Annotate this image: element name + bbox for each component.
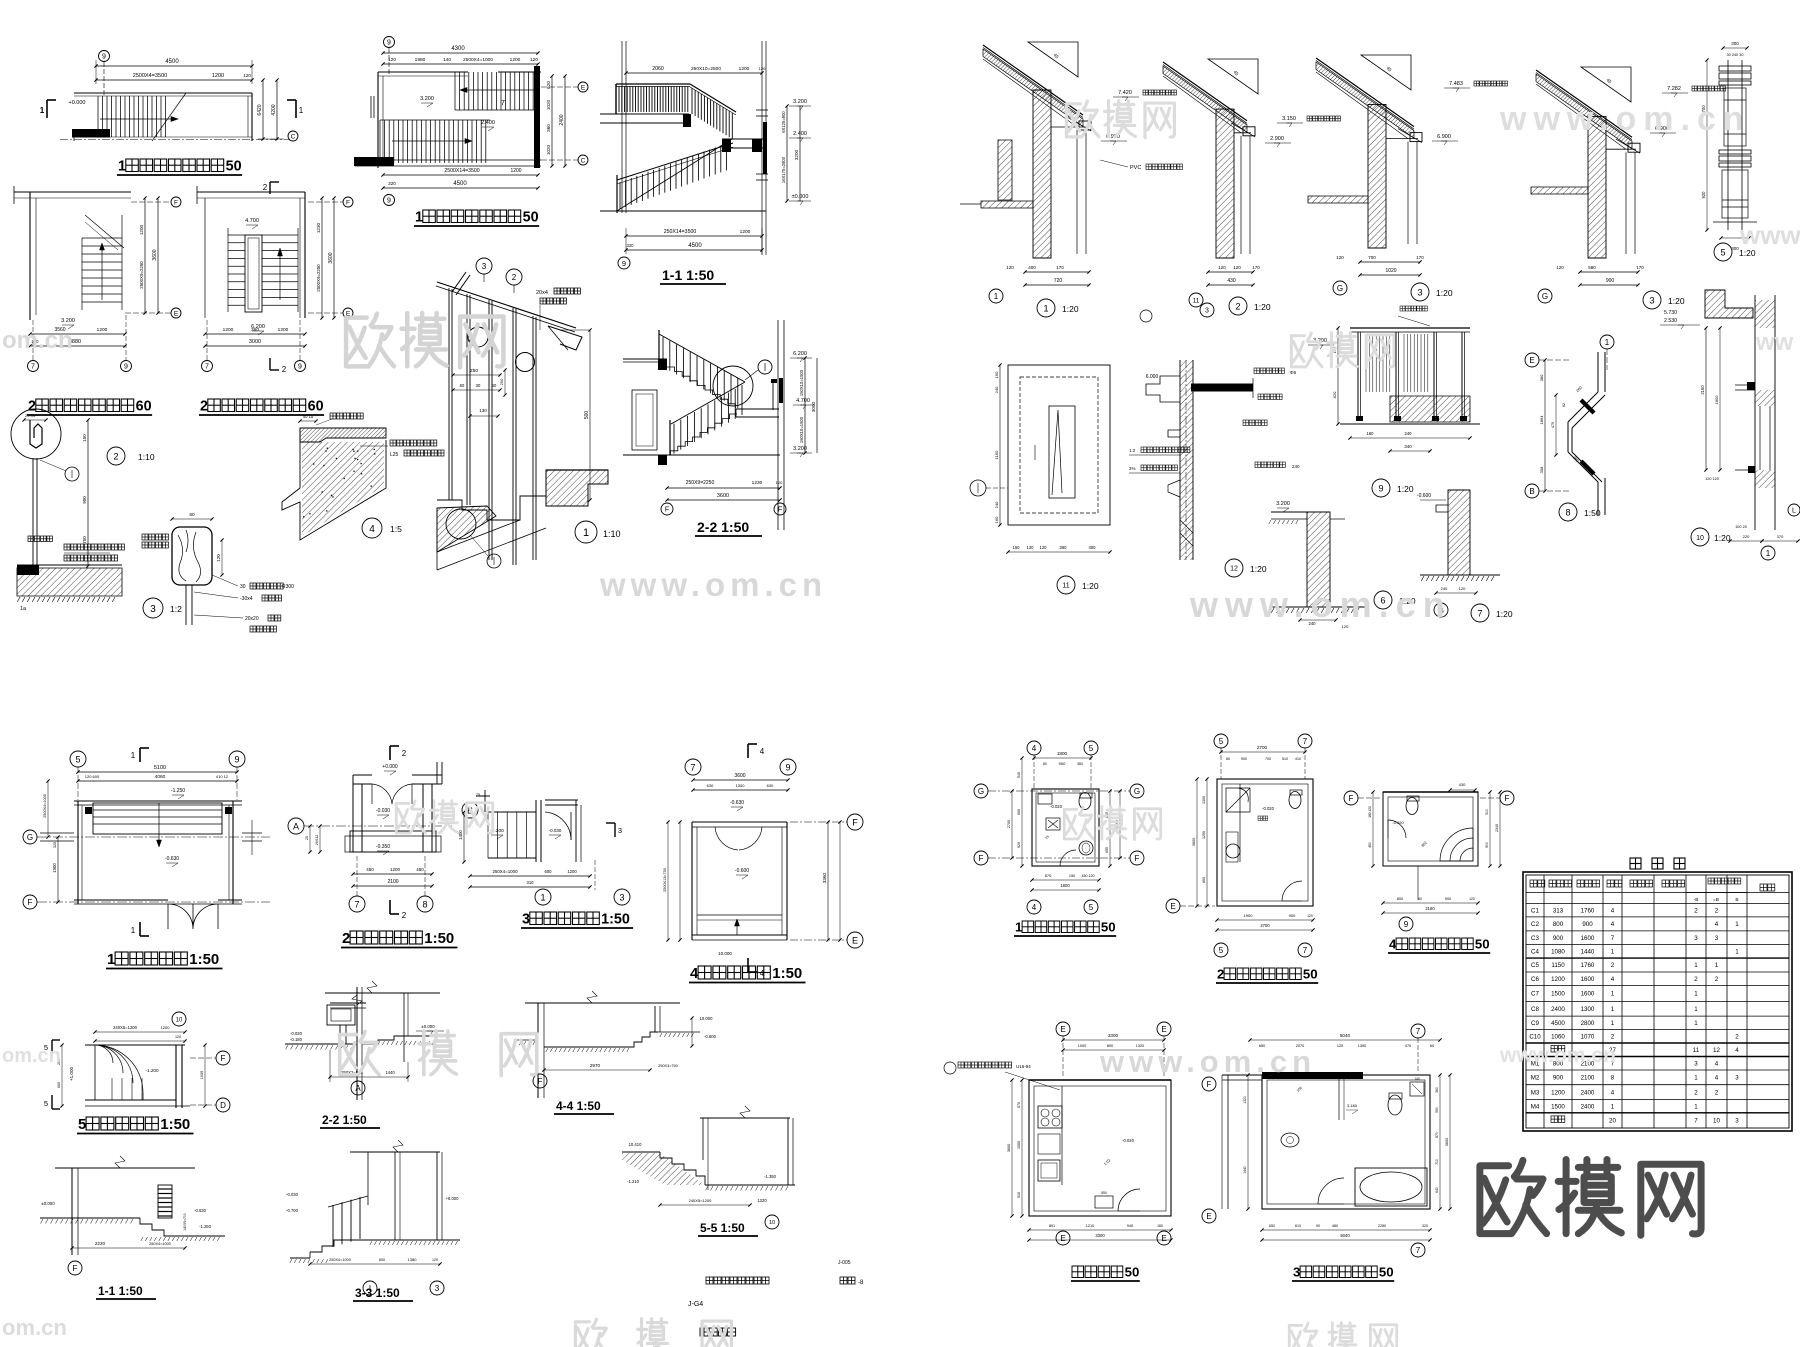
svg-text:2: 2 [1235,301,1240,311]
svg-text:940: 940 [1127,1224,1133,1228]
svg-text:1200: 1200 [510,168,521,174]
svg-text:4: 4 [1032,903,1037,912]
svg-text:1200: 1200 [161,1025,171,1030]
svg-text:60: 60 [308,399,324,415]
svg-text:240: 240 [1292,464,1300,469]
svg-text:900: 900 [1445,897,1451,901]
svg-text:www.om.cn: www.om.cn [1499,100,1751,138]
svg-text:M4: M4 [1531,1103,1540,1110]
svg-text:1800: 1800 [1060,883,1070,888]
slope triangle mark [1361,55,1411,90]
svg-text:320: 320 [388,181,396,186]
2F floor slab [600,113,689,115]
bottom dims [1360,261,1420,263]
center arrow [158,803,160,845]
svg-text:920: 920 [1701,191,1706,199]
right wall marks [242,832,262,834]
kitchen walls [1029,1080,1171,1216]
dimension 4500 top [96,65,252,67]
top wall [14,191,131,193]
svg-text:4: 4 [1715,1061,1719,1068]
svg-text:410 12: 410 12 [216,774,229,779]
svg-text:150: 150 [82,434,87,442]
svg-text:900: 900 [82,496,87,504]
svg-text:590: 590 [1435,1107,1439,1113]
svg-text:-1.250: -1.250 [199,1224,212,1229]
left lower wall detail1 [998,140,1012,200]
svg-text:25 44: 25 44 [25,413,36,418]
bathroom plan 2 (2号卫生间大样) [1214,734,1228,748]
svg-text:±0.000: ±0.000 [421,1024,435,1029]
svg-text:3000: 3000 [811,401,816,412]
bottom dims [626,235,762,237]
faint watermark 欧模网 bottom center [575,1319,731,1347]
svg-text:1:10: 1:10 [138,452,155,462]
svg-text:1:20: 1:20 [1250,564,1267,574]
interior lines [1606,148,1636,150]
svg-text:2700: 2700 [1260,923,1270,928]
riser and concrete mass [282,428,386,540]
lower flight steps [670,414,737,455]
svg-text:2500X9=2250: 2500X9=2250 [139,261,144,289]
svg-text:1: 1 [1611,1006,1615,1013]
counter along left [1061,1086,1063,1185]
axis E bottom left [1166,899,1180,913]
svg-text:F: F [1349,794,1354,803]
svg-text:10: 10 [769,1220,775,1226]
faint watermark 欧模网 bottom right of bath3 [1289,1323,1396,1347]
bottom dims b4 [1417,866,1419,900]
svg-text:3: 3 [1715,935,1719,942]
right side vertical dims [262,80,264,139]
svg-text:800: 800 [1202,877,1206,883]
svg-text:11: 11 [1062,583,1069,590]
right dims b4 [1489,792,1491,866]
svg-text:2-2 1:50: 2-2 1:50 [322,1113,367,1127]
svg-text:120: 120 [776,480,783,485]
svg-text:2: 2 [402,749,407,758]
inner landing lines [697,914,782,916]
svg-text:250X3=750: 250X3=750 [658,1064,678,1068]
svg-text:7: 7 [205,364,209,371]
label 9 1:20 [1372,479,1390,497]
bottom dims [1208,271,1253,273]
svg-text:U16-94: U16-94 [1016,1064,1031,1069]
section 4-4 [525,1002,680,1004]
svg-text:1200: 1200 [739,66,750,72]
svg-text:700: 700 [1265,757,1271,761]
arrow wedge at end [548,326,582,350]
upper flight rail [659,334,745,382]
svg-text:11: 11 [1193,298,1200,305]
ground line detail 6 [1271,606,1365,608]
svg-text:120: 120 [1336,255,1344,260]
svg-text:1200: 1200 [1551,976,1565,983]
toilet right b3 [1388,1095,1402,1115]
axis bubble 9 [99,51,110,62]
svg-text:9: 9 [1404,920,1409,929]
svg-text:370: 370 [1777,534,1784,539]
svg-text:3: 3 [1694,1061,1698,1068]
svg-text:1: 1 [1694,991,1698,998]
svg-text:1: 1 [540,892,545,902]
svg-text:3: 3 [1417,287,1422,297]
svg-text:1-1 1:50: 1-1 1:50 [662,267,714,283]
left dims [47,781,49,837]
svg-text:1440: 1440 [1243,1166,1247,1174]
svg-text:7: 7 [31,364,35,371]
svg-text:250X9=2250: 250X9=2250 [686,480,715,486]
svg-text:F: F [1207,1080,1212,1089]
svg-text:62: 62 [1562,403,1566,407]
svg-text:360: 360 [546,124,551,132]
svg-text:120: 120 [243,73,251,78]
svg-text:4500: 4500 [688,243,702,249]
plan5 walls [85,1044,185,1046]
svg-text:=B: =B [1713,897,1719,903]
svg-text:5: 5 [78,1116,86,1133]
svg-text:1980: 1980 [415,57,426,63]
right wall and door plan3 [535,800,537,862]
svg-text:40 15: 40 15 [303,414,314,419]
svg-text:www: www [1739,220,1800,250]
small dim top of post [24,419,46,421]
svg-text:7: 7 [1694,1117,1698,1124]
svg-text:1: 1 [1043,303,1048,313]
axis bubble 1 top [1600,335,1614,349]
cut mark 1 bottom [139,922,141,936]
svg-text:2500X4=3500: 2500X4=3500 [133,73,167,79]
svg-text:2400: 2400 [1581,1089,1595,1096]
upper ground right 4-4 [658,1031,700,1033]
svg-text:610: 610 [1295,1224,1301,1228]
axis bubble 11 under detail 2 [1189,293,1203,307]
door arc b3 [1318,1178,1344,1204]
svg-text:1020: 1020 [546,99,551,110]
svg-text:510: 510 [1282,757,1288,761]
label 2 1:20 [1229,297,1247,315]
svg-text:120: 120 [1027,545,1035,550]
landing entry black wall bar [72,129,110,138]
svg-text:1900: 1900 [1244,913,1254,918]
svg-text:1: 1 [131,751,136,760]
break line diagonal [152,93,186,141]
plinth detail 6 [1307,512,1330,607]
top walls [353,774,372,776]
svg-text:120 120: 120 120 [1705,477,1719,481]
svg-text:4: 4 [1715,921,1719,928]
fascia/gutter [1628,143,1640,152]
speckles [303,448,375,518]
svg-text:1320: 1320 [757,1198,767,1203]
fridge small rect [1095,1196,1113,1208]
svg-text:360: 360 [251,327,259,333]
wall hatched [1033,90,1051,258]
wood block [172,527,212,585]
upper flight treads [454,72,456,110]
leader texts anchor and grout [64,544,70,550]
svg-text:480: 480 [1332,1224,1338,1228]
svg-text:3600: 3600 [1445,1138,1449,1146]
svg-text:1400: 1400 [458,830,463,840]
svg-text:2500X13=750: 2500X13=750 [663,868,667,892]
label circle 2 1:10 [107,447,125,465]
upper tread hatched strip [300,428,386,442]
svg-text:M3: M3 [1531,1089,1540,1096]
fascia/gutter [1410,133,1422,142]
svg-text:900: 900 [1241,757,1247,761]
callout bubble small [758,360,772,374]
svg-text:1: 1 [299,106,304,115]
cut mark 4 bottom [747,958,749,972]
svg-text:900: 900 [1606,278,1615,284]
svg-text:640: 640 [1435,1187,1439,1193]
svg-text:M2: M2 [1531,1075,1540,1082]
svg-text:-0.030: -0.030 [286,1192,299,1197]
svg-text:1160: 1160 [994,450,999,459]
arrow lower flight [392,140,470,142]
svg-text:630: 630 [767,783,774,788]
balusters vertical double lines [448,288,450,500]
left dims b2 [1206,779,1208,906]
svg-text:D: D [220,1101,226,1110]
svg-text:1200: 1200 [278,327,289,333]
axis bubble E [171,308,181,318]
svg-text:580: 580 [1588,265,1596,270]
top wall [197,191,305,193]
bathroom plan 3 (3号卫生间大样) [1202,1077,1216,1091]
section 3-3 [350,1151,440,1153]
svg-text:6.900: 6.900 [1437,134,1451,140]
table header row [1526,892,1789,894]
left rail post upper [658,330,660,367]
svg-text:170: 170 [1416,255,1424,260]
dims 4-4 [544,1069,650,1071]
svg-text:F: F [346,200,350,207]
svg-text:910: 910 [1017,1192,1021,1198]
svg-text:100 20: 100 20 [1735,525,1747,529]
faint watermark 欧模网 over plan2 bottom-left [396,801,492,834]
svg-text:2160: 2160 [1425,906,1435,911]
axis bubble C right lower [578,155,588,165]
wall section detail 12 [1180,360,1193,560]
svg-text:www.om.cn: www.om.cn [1099,1044,1316,1079]
svg-text:150: 150 [1013,545,1021,550]
svg-text:1600: 1600 [1581,991,1595,998]
svg-text:2: 2 [1715,1089,1719,1096]
plinth detail 7 [1448,490,1470,575]
svg-text:2: 2 [200,399,208,415]
dims 3-3 [310,1263,440,1265]
svg-text:30: 30 [476,383,481,388]
svg-text:320: 320 [627,243,635,248]
svg-text:C3: C3 [1531,935,1539,942]
svg-text:120: 120 [388,57,396,63]
sheet footer texts [706,1277,713,1284]
dims left plan3 [463,812,465,862]
down arrow [279,250,281,300]
small bubble above detail12 [1200,303,1214,317]
svg-text:120: 120 [1233,265,1241,270]
svg-text:-0.350: -0.350 [376,844,390,850]
left dims kitchen [1021,1080,1023,1216]
svg-text:4: 4 [1611,976,1615,983]
svg-text:G: G [978,787,984,796]
railing 3-3 [328,1196,368,1207]
axis mark 12 left [970,480,986,496]
svg-text:540: 540 [1017,772,1021,778]
svg-text:7: 7 [690,762,695,772]
axis bubble 9 bottom [384,195,395,206]
svg-text:410: 410 [1295,757,1301,761]
svg-text:900: 900 [1059,761,1066,766]
svg-text:2700: 2700 [1257,745,1268,750]
break marks on rail [452,272,466,292]
svg-text:2.900: 2.900 [1270,136,1284,142]
step plan 5 (5号台阶大样) [172,1012,186,1026]
svg-text:6420: 6420 [257,104,263,115]
top wall [378,71,468,73]
svg-text:6.000: 6.000 [1146,374,1159,380]
svg-text:www.om.cn: www.om.cn [1189,584,1452,625]
svg-text:2: 2 [512,273,517,282]
bottom dims [667,487,780,489]
svg-text:140: 140 [443,57,451,63]
svg-text:430: 430 [1227,278,1236,284]
svg-text:3600: 3600 [1007,1144,1011,1152]
svg-text:www.om.cn: www.om.cn [599,566,827,603]
svg-text:300: 300 [1731,41,1739,46]
svg-text:1:20: 1:20 [1436,288,1453,298]
top slab [1191,384,1253,391]
label 11 1:20 [1057,576,1075,594]
axis bubbles F F [661,503,673,515]
svg-text:240X5=1200: 240X5=1200 [689,1198,713,1203]
bottom wall and landing bar [355,159,541,161]
cut mark 2 top [269,182,271,194]
label circle 1 1:10 [575,521,597,543]
left dims plan4 [667,822,669,940]
svg-text:1020: 1020 [1385,268,1396,274]
svg-text:2970: 2970 [590,1063,601,1068]
svg-text:9: 9 [387,198,391,205]
svg-text:140: 140 [1414,1077,1420,1081]
svg-text:150X10=1500: 150X10=1500 [799,416,804,443]
svg-text:10.410: 10.410 [629,1142,642,1147]
svg-text:900: 900 [1582,921,1593,928]
svg-text:4: 4 [369,524,375,535]
axis bubbles 7 and 9 bottom [28,361,39,372]
svg-text:120: 120 [759,66,766,71]
svg-text:4: 4 [1611,921,1615,928]
svg-text:308: 308 [1539,466,1544,473]
svg-text:PVC: PVC [1130,165,1141,171]
svg-text:E: E [1529,356,1534,365]
svg-text:50: 50 [1475,937,1490,952]
lower flight: steps zigzag [617,139,732,211]
svg-text:3.200: 3.200 [793,99,807,105]
svg-text:820: 820 [1332,391,1337,398]
svg-text:1200: 1200 [97,327,108,333]
svg-text:8: 8 [1565,507,1570,517]
svg-text:7: 7 [1303,737,1308,746]
axis bubble E [1525,353,1539,367]
svg-text:4300: 4300 [451,46,465,52]
left window rect [632,390,657,450]
svg-text:3600: 3600 [152,249,158,260]
faint watermark 欧模网 upper right (over eave 1) [1066,101,1174,138]
svg-text:2700: 2700 [1007,820,1011,828]
label 8 1:50 [1559,503,1577,521]
bathroom4 walls [1383,791,1478,793]
svg-text:900: 900 [1553,935,1564,942]
infill verticals detail 9 [1365,334,1367,392]
svg-text:+6.000: +6.000 [446,1196,460,1201]
cut mark 2 top [389,746,391,760]
outer walls [204,198,206,318]
interior lines [1386,138,1418,140]
bottom dims [205,333,305,335]
svg-text:2: 2 [1694,976,1698,983]
svg-text:1900: 1900 [52,863,57,873]
label 3 1:20 [1643,291,1661,309]
svg-text:1440: 1440 [1581,949,1595,956]
svg-text:F: F [28,898,33,907]
svg-text:6X125=900: 6X125=900 [781,111,786,133]
break mark top [352,995,362,1005]
top pipe texts [1400,306,1405,311]
svg-text:1:20: 1:20 [1397,484,1414,494]
svg-text:-0.020: -0.020 [1050,804,1063,809]
svg-text:-1.200: -1.200 [145,1068,158,1073]
svg-text:1: 1 [1611,949,1615,956]
svg-text:4: 4 [1735,1047,1739,1054]
svg-text:1:20: 1:20 [1062,304,1079,314]
texts right of detail 12 [1254,368,1260,374]
svg-text:3.200: 3.200 [1276,501,1290,507]
stair treads horizontal [82,237,122,239]
svg-text:1600: 1600 [1581,935,1595,942]
eave detail 1 roof band [983,45,1083,115]
svg-text:5-5 1:50: 5-5 1:50 [700,1221,745,1235]
svg-text:120: 120 [1337,1044,1343,1048]
top floor line 2-2 [325,992,440,994]
label 6 1:20 [1374,591,1392,609]
svg-text:L25: L25 [390,452,399,458]
svg-text:1: 1 [583,527,589,539]
svg-text:16X175=2800: 16X175=2800 [781,156,786,183]
svg-text:-0.020: -0.020 [290,1031,303,1036]
svg-text:G: G [1337,284,1343,293]
axis bubble L right [1788,504,1800,516]
svg-text:380: 380 [1539,374,1544,381]
svg-text:500: 500 [584,411,590,420]
svg-text:240: 240 [1405,431,1413,436]
floor slab hatched [17,564,122,566]
svg-text:3-3 1:50: 3-3 1:50 [355,1286,400,1300]
svg-text:12: 12 [1230,566,1238,573]
angle steel leader [390,440,396,446]
callout bubbles 3 and 2 [476,258,492,274]
heavy cut wall right [534,66,540,168]
diagonal rail [85,215,124,248]
title 厨房大样50 [1072,1266,1084,1278]
svg-text:3.200: 3.200 [420,96,434,102]
axis bubble 1 under detail 1 [989,289,1003,303]
vertical dim [87,420,89,566]
svg-text:1380: 1380 [408,1257,418,1262]
svg-text:-0.030: -0.030 [549,828,562,833]
